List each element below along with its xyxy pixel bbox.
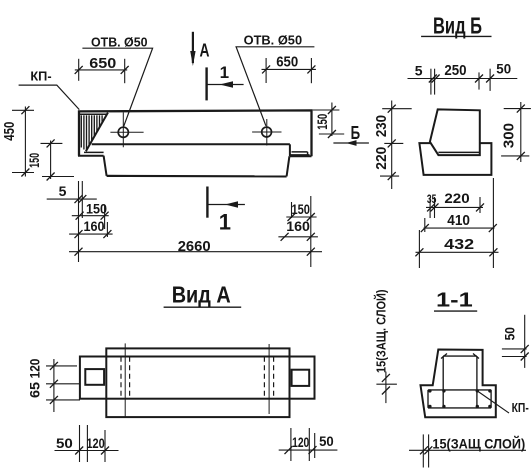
section mark Б arrow (333, 142, 369, 144)
dimension 450 (12, 106, 34, 176)
leader отв. left (82, 48, 152, 126)
svg-text:Вид Б: Вид Б (433, 13, 482, 39)
svg-text:Вид А: Вид А (172, 282, 231, 308)
rebar dots (428, 389, 491, 408)
svg-text:50: 50 (502, 327, 518, 340)
svg-text:КП-: КП- (30, 69, 51, 84)
section mark A arrow (192, 32, 194, 63)
svg-text:300: 300 (501, 123, 517, 148)
middle rectangle (106, 348, 289, 417)
wire beam band bottom edge (92, 143, 290, 145)
dimension 5 250 50 top (408, 69, 518, 95)
outer rectangle (80, 357, 315, 399)
svg-text:5: 5 (59, 183, 67, 199)
svg-text:65: 65 (27, 382, 43, 398)
hidden lines left (121, 357, 130, 399)
wire right end bottom (290, 155, 312, 157)
svg-text:250: 250 (444, 63, 466, 79)
svg-text:КП-: КП- (512, 401, 529, 415)
stirrup web (443, 356, 477, 408)
dimension 410 (421, 218, 497, 232)
svg-text:2660: 2660 (178, 238, 211, 255)
svg-text:1: 1 (220, 63, 229, 82)
svg-text:ОТВ. Ø50: ОТВ. Ø50 (244, 33, 303, 48)
base block (419, 143, 491, 175)
svg-text:150: 150 (291, 201, 310, 217)
svg-text:Б: Б (351, 123, 361, 143)
wire tooth ledge line (438, 151, 479, 153)
svg-text:160: 160 (286, 218, 310, 234)
svg-text:50: 50 (56, 435, 73, 451)
dimension 150 left bottom (72, 205, 109, 229)
wire left shelf line (84, 151, 104, 153)
wire left end diagonal (86, 113, 108, 152)
svg-text:А: А (200, 41, 210, 61)
dimension 432 (415, 178, 498, 268)
title underlines (164, 36, 492, 311)
dimension 650 right (262, 58, 316, 83)
svg-text:ОТВ. Ø50: ОТВ. Ø50 (91, 35, 148, 50)
dimension 35 220 (426, 197, 484, 218)
section mark 1 bottom (206, 187, 208, 218)
wire right shelf lines (290, 152, 310, 155)
stirrup base (428, 390, 491, 408)
wire flange left diagonal (104, 156, 107, 176)
dimension 2660 (69, 248, 322, 256)
center line left (124, 343, 126, 417)
section outline (421, 350, 496, 418)
wire flange right diagonal (287, 156, 290, 176)
dimension 300 right (501, 102, 531, 162)
hole left (118, 127, 128, 137)
svg-text:410: 410 (447, 213, 470, 229)
square hole left (85, 369, 104, 385)
dimension 160 right bottom (278, 196, 318, 267)
leader КП section (477, 391, 509, 413)
dimension 50 section (502, 315, 529, 368)
stirrup corner hooks (441, 354, 479, 359)
svg-text:450: 450 (2, 122, 18, 141)
dimension 15 защ слой left (376, 372, 397, 404)
svg-text:35: 35 (427, 194, 437, 206)
svg-text:220: 220 (444, 191, 469, 206)
svg-text:120: 120 (292, 434, 309, 450)
wire left end bottom (78, 155, 104, 157)
tooth block (430, 109, 480, 155)
dimension 50 120 plan bottom left (55, 425, 119, 462)
svg-text:150: 150 (314, 114, 330, 130)
svg-text:160: 160 (84, 218, 105, 234)
dimension 650 left (75, 59, 129, 83)
dimension 120 65 plan left (46, 359, 80, 412)
beam outline (79, 110, 312, 156)
svg-text:120: 120 (27, 358, 43, 378)
svg-text:15(ЗАЩ. СЛОЙ): 15(ЗАЩ. СЛОЙ) (374, 289, 389, 373)
hidden lines right (264, 357, 273, 399)
svg-text:1-1: 1-1 (436, 289, 473, 312)
dimension 15 защ слой bottom (409, 434, 526, 467)
underline 1-1 (434, 310, 477, 312)
underline Вид А (164, 306, 242, 308)
svg-text:432: 432 (444, 236, 474, 253)
section mark 1 top (205, 67, 207, 100)
dimension 150 right bottom (286, 202, 316, 221)
svg-text:120: 120 (86, 435, 104, 451)
leader отв. right (236, 47, 314, 126)
hole right (262, 127, 272, 137)
hatch left end (81, 115, 102, 149)
dimension 120 50 plan bottom right (279, 428, 338, 461)
square hole right (292, 370, 310, 386)
svg-text:15(ЗАЩ СЛОЙ): 15(ЗАЩ СЛОЙ) (432, 435, 525, 452)
dimension 150 left (41, 139, 75, 180)
svg-text:5: 5 (415, 63, 423, 79)
dimension 220 230 left (380, 101, 412, 190)
dimension 150 right of beam (313, 103, 345, 139)
svg-text:230: 230 (374, 115, 390, 137)
svg-text:650: 650 (276, 54, 298, 70)
svg-text:220: 220 (374, 147, 390, 170)
svg-text:50: 50 (319, 433, 334, 449)
center line right (268, 344, 270, 414)
svg-text:1: 1 (219, 210, 231, 235)
wire right end vertical (289, 144, 291, 156)
svg-text:50: 50 (496, 61, 511, 77)
underline Вид Б (421, 35, 491, 37)
svg-text:150: 150 (26, 153, 42, 168)
leader КП left (19, 85, 80, 110)
wire left end inner top line (80, 113, 107, 115)
wire flange bottom edge (107, 175, 287, 178)
svg-text:150: 150 (86, 201, 107, 217)
svg-text:650: 650 (89, 56, 116, 72)
dimension 160 left bottom (69, 222, 113, 238)
dimension 5 left bottom (47, 181, 97, 262)
